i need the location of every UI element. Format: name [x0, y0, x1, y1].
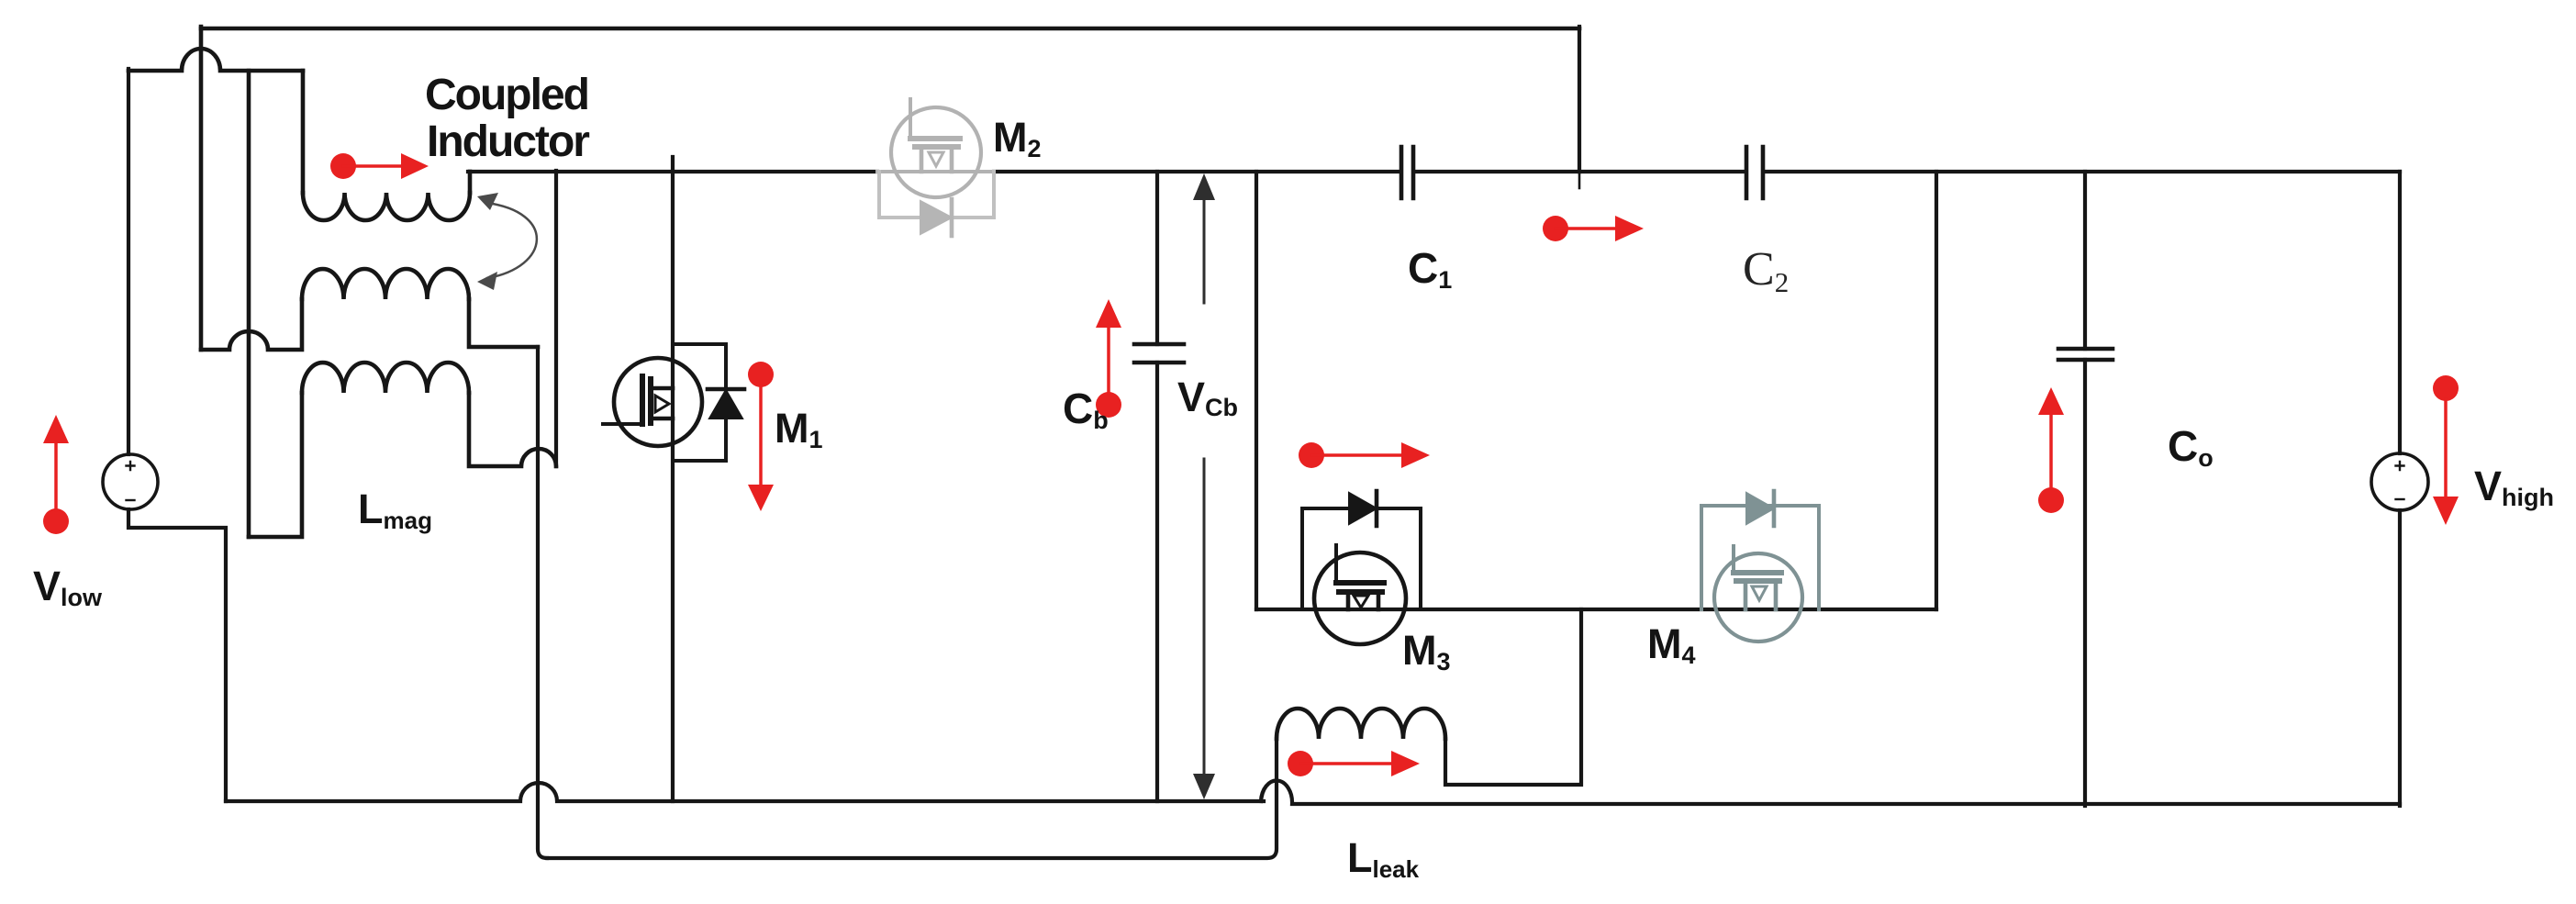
- wire inner vertical x271: [247, 71, 251, 537]
- transistor M3: [1314, 545, 1406, 644]
- svg-text:Vlow: Vlow: [33, 563, 103, 611]
- wire top rail: [201, 27, 1579, 31]
- capacitor C1 plates: [1401, 147, 1413, 198]
- wire winding2 left feed with hop over x271: [201, 299, 302, 350]
- wire Vlow bottom to rail: [128, 509, 226, 801]
- wire mid rail left of M2: [468, 170, 877, 173]
- arrow i M1: [748, 362, 774, 511]
- svg-text:Lmag: Lmag: [358, 485, 432, 534]
- arrow Vlow polarity: [43, 415, 69, 534]
- red current arrows: [43, 153, 2459, 776]
- arrow i Co: [2038, 387, 2064, 513]
- diode D1 body of M1: [673, 344, 744, 461]
- capacitor Co vertical bottom: [2083, 360, 2087, 806]
- transistor M1: [603, 358, 702, 446]
- svg-text:Cb: Cb: [1063, 385, 1109, 434]
- wire right branch to Vhigh: [2398, 172, 2402, 453]
- arrow i winding1: [330, 153, 429, 179]
- capacitor Co vertical top: [2083, 172, 2087, 349]
- wire vertical x1721 from top rail to mid rail: [1578, 27, 1581, 172]
- svg-text:M4: M4: [1647, 620, 1696, 669]
- wire bottom rail left with hops: [226, 783, 1264, 801]
- arrow VCb voltage double arrow: [1193, 173, 1215, 799]
- wire Lleak right end to M3 wire: [1445, 609, 1581, 785]
- svg-text:Co: Co: [2168, 422, 2214, 472]
- diode D3 body of M3: [1302, 491, 1421, 609]
- coupling arrow between winding1 and winding2: [477, 193, 537, 290]
- capacitor C2 plates: [1746, 147, 1763, 198]
- capacitor Co plates: [2058, 349, 2113, 360]
- svg-text:C1: C1: [1408, 244, 1452, 294]
- svg-text:M2: M2: [993, 114, 1042, 162]
- wire left vertical from top rail down to winding2 feed: [199, 27, 204, 350]
- svg-text:M1: M1: [775, 405, 823, 453]
- inductor winding2 of coupled inductor: [302, 269, 469, 299]
- wire long vertical x586 down to bypass: [538, 347, 547, 858]
- capacitor Cb plates: [1134, 344, 1184, 363]
- wire Vlow top vertical: [127, 69, 130, 454]
- svg-text:Vhigh: Vhigh: [2474, 463, 2554, 511]
- transistor M4 (inactive grey): [1714, 546, 1802, 642]
- source Vlow: [103, 454, 158, 509]
- source Vhigh: [2371, 453, 2428, 510]
- wire bottom bypass Lleak: [547, 739, 1277, 858]
- wire vertical x1369 mid rail to M3: [1255, 172, 1258, 609]
- svg-text:Inductor: Inductor: [427, 117, 589, 166]
- inductor winding1 of coupled inductor: [303, 193, 470, 220]
- wire winding1 left feed: [301, 71, 306, 193]
- svg-text:C2: C2: [1743, 243, 1789, 298]
- svg-text:M3: M3: [1402, 627, 1451, 675]
- wire vertical x2110 up to mid rail: [1935, 172, 1938, 609]
- wire winding1 right end up to mid rail: [468, 172, 473, 193]
- inductor Lleak: [1277, 709, 1445, 739]
- arrow i Cb: [1096, 299, 1121, 418]
- wire bottom rail right with hop: [1261, 781, 2400, 805]
- transistor M2 (inactive grey): [877, 99, 994, 197]
- wire mid rail C2 to right corner: [1765, 170, 2400, 173]
- arrow i Lleak: [1288, 751, 1420, 776]
- diode D4 body of M4 (grey): [1701, 491, 1819, 609]
- arrow Vhigh polarity: [2433, 375, 2459, 525]
- wire winding3 right end with hop over x586: [469, 393, 556, 466]
- wire mid rail C1 to C2: [1415, 170, 1745, 173]
- wire mid rail M2 to C1: [994, 170, 1400, 173]
- arrow i M3: [1299, 442, 1430, 468]
- diode D2 body of M2 (grey): [879, 172, 994, 236]
- svg-text:Lleak: Lleak: [1347, 834, 1420, 883]
- svg-text:VCb: VCb: [1177, 374, 1238, 421]
- wire vertical x606 tap up to mid rail: [554, 171, 558, 466]
- wire winding2 right end down: [469, 299, 538, 347]
- arrow i C1-C2: [1543, 216, 1644, 241]
- wire M3-M4 horizontal: [1256, 608, 1936, 611]
- inductor winding3 of coupled inductor: [302, 363, 469, 393]
- svg-text:Coupled: Coupled: [425, 71, 588, 119]
- capacitor Cb vertical top: [1155, 172, 1159, 344]
- wire M1 drain-source vertical: [671, 157, 675, 801]
- wire winding3 left feed: [249, 393, 302, 537]
- wire y77 horizontal with hop over x219: [128, 49, 303, 71]
- capacitor Cb vertical bottom: [1155, 363, 1159, 801]
